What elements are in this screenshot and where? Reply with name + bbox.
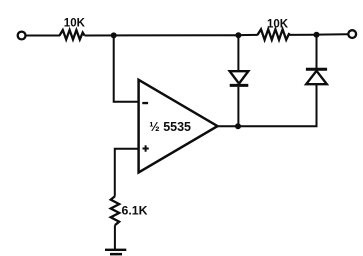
wire R3 to ground [114,225,116,249]
wire input terminal to R1 [26,35,60,37]
resistor R2 10K [258,29,290,40]
wire op-amp output [217,125,318,127]
ground [105,249,126,256]
op-amp U1 [139,80,218,173]
wire node C to output terminal [317,33,348,35]
wire op-amp non-inverting input [115,149,139,197]
svg-text:10K: 10K [267,18,289,30]
pin label minus [142,102,148,104]
wire node B to R2 [238,34,257,36]
diode D1 [230,35,249,126]
node C (feedback junction output side top) [314,32,320,38]
wire R1 to node B [85,34,239,36]
node B (feedback junction top) [235,32,241,38]
input terminal [18,32,26,40]
resistor R1 10K [60,30,85,40]
svg-text:10K: 10K [64,18,86,30]
svg-text:6.1K: 6.1K [122,203,148,217]
node D (output junction) [235,123,241,129]
svg-text:½ 5535: ½ 5535 [149,120,191,134]
node A (inverting input junction) [111,32,117,38]
wire node A down to op-amp inverting input [114,35,139,101]
diode D2 [306,35,327,127]
output terminal [348,30,356,38]
resistor R3 6.1K [111,196,120,225]
pin label plus [143,145,149,151]
wire R2 to node C [289,34,316,36]
